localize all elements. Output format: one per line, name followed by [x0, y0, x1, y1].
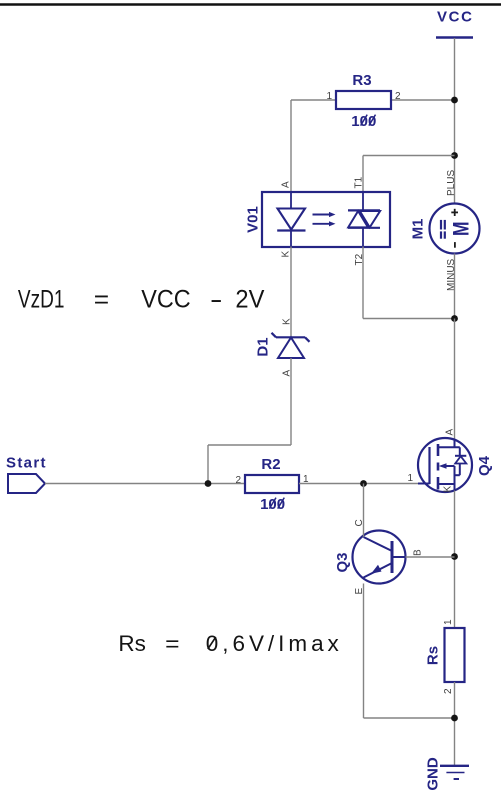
wire opto T2 down — [362, 247, 364, 319]
node VCC/R3 junction — [451, 97, 458, 104]
opto LED — [277, 192, 305, 247]
svg-text:VCC: VCC — [437, 9, 472, 26]
wire Q3 base to rail — [406, 556, 455, 558]
svg-text:R2: R2 — [261, 456, 280, 473]
svg-text:2: 2 — [395, 91, 401, 102]
optocoupler U V01 box — [245, 192, 391, 247]
svg-text:2: 2 — [443, 688, 454, 694]
svg-text:1: 1 — [407, 473, 413, 484]
wire down to opto T1 — [362, 156, 364, 193]
svg-text:MINUS: MINUS — [446, 258, 457, 291]
svg-text:Rs: Rs — [425, 646, 442, 665]
wire R3 pin1 down to opto anode — [290, 100, 292, 192]
formula VzD1 — [18, 286, 265, 314]
wire opto K down to D1 — [290, 247, 292, 338]
wire down to Start net — [207, 445, 209, 484]
wire R3 pin2 to rail — [391, 99, 455, 101]
svg-text:Start: Start — [6, 455, 46, 472]
transistor Q4 MOSFET — [407, 429, 493, 493]
zener diode D1 — [255, 318, 310, 377]
wire R2 to Q4 gate — [299, 483, 418, 485]
svg-text:PLUS: PLUS — [446, 170, 457, 196]
node junction to T1 — [451, 152, 458, 159]
node emitter/Rs junction — [451, 715, 458, 722]
wire VCC rail top — [454, 38, 456, 204]
svg-text:K: K — [281, 251, 292, 258]
resistor Rs — [425, 619, 465, 694]
node Q3 base junction — [451, 553, 458, 560]
opto triac — [348, 192, 380, 247]
svg-text:C: C — [354, 519, 365, 526]
svg-text:K: K — [443, 486, 454, 493]
svg-text:T1: T1 — [354, 176, 365, 188]
ground GND — [425, 757, 470, 791]
svg-text:=: = — [94, 286, 109, 314]
opto light arrows — [313, 212, 336, 227]
formula Rs — [118, 631, 339, 656]
svg-text:V01: V01 — [245, 206, 262, 233]
svg-text:K: K — [282, 318, 293, 325]
svg-text:1: 1 — [326, 91, 332, 102]
svg-text:-: - — [210, 286, 223, 314]
wire D1 anode down — [290, 358, 292, 445]
wire motor minus down — [454, 254, 456, 319]
wire down to Q4 drain — [454, 319, 456, 442]
opto pin labels — [281, 176, 366, 265]
svg-text:D1: D1 — [255, 337, 272, 356]
wire gate node down to Q3 collector — [363, 484, 365, 532]
wire Start to R2 — [45, 483, 245, 485]
node motor/T2 junction — [451, 315, 458, 322]
wire T2 right to rail — [363, 318, 455, 320]
svg-text:Q3: Q3 — [334, 552, 351, 572]
svg-text:VCC: VCC — [141, 286, 191, 314]
resistor R2 — [235, 456, 309, 513]
wire Q4 source down rail — [454, 491, 456, 629]
wire R3 pin1 left — [291, 99, 336, 101]
wire Rs bottom to gnd node — [454, 682, 456, 766]
svg-text:VzD1: VzD1 — [18, 286, 65, 314]
svg-text:GND: GND — [425, 757, 442, 791]
svg-text:0,6V/Imax: 0,6V/Imax — [206, 631, 340, 656]
motor M1 — [410, 170, 480, 291]
border frame top — [0, 3, 501, 5]
svg-text:M: M — [449, 221, 474, 236]
svg-text:R3: R3 — [352, 72, 371, 89]
node gate/Q3 junction — [360, 480, 367, 487]
svg-text:2V: 2V — [235, 286, 264, 314]
svg-text:Q4: Q4 — [476, 455, 493, 476]
wire emitter right to Rs node — [364, 717, 455, 719]
resistor R3 — [326, 72, 401, 130]
connector Start — [6, 455, 46, 494]
supply VCC symbol — [436, 9, 473, 38]
svg-text:M1: M1 — [410, 219, 427, 240]
svg-text:=: = — [165, 631, 179, 656]
svg-text:B: B — [413, 549, 424, 556]
node Start/R2 junction — [205, 480, 212, 487]
svg-text:Rs: Rs — [118, 631, 145, 656]
svg-text:A: A — [281, 181, 292, 188]
transistor Q3 NPN — [334, 519, 424, 594]
svg-text:2: 2 — [235, 475, 241, 486]
wire Q3 emitter down — [363, 584, 365, 719]
svg-text:1: 1 — [443, 619, 454, 625]
wire left to node — [208, 444, 291, 446]
svg-text:A: A — [445, 429, 456, 436]
wire junction to T1 horizontal — [363, 155, 455, 157]
